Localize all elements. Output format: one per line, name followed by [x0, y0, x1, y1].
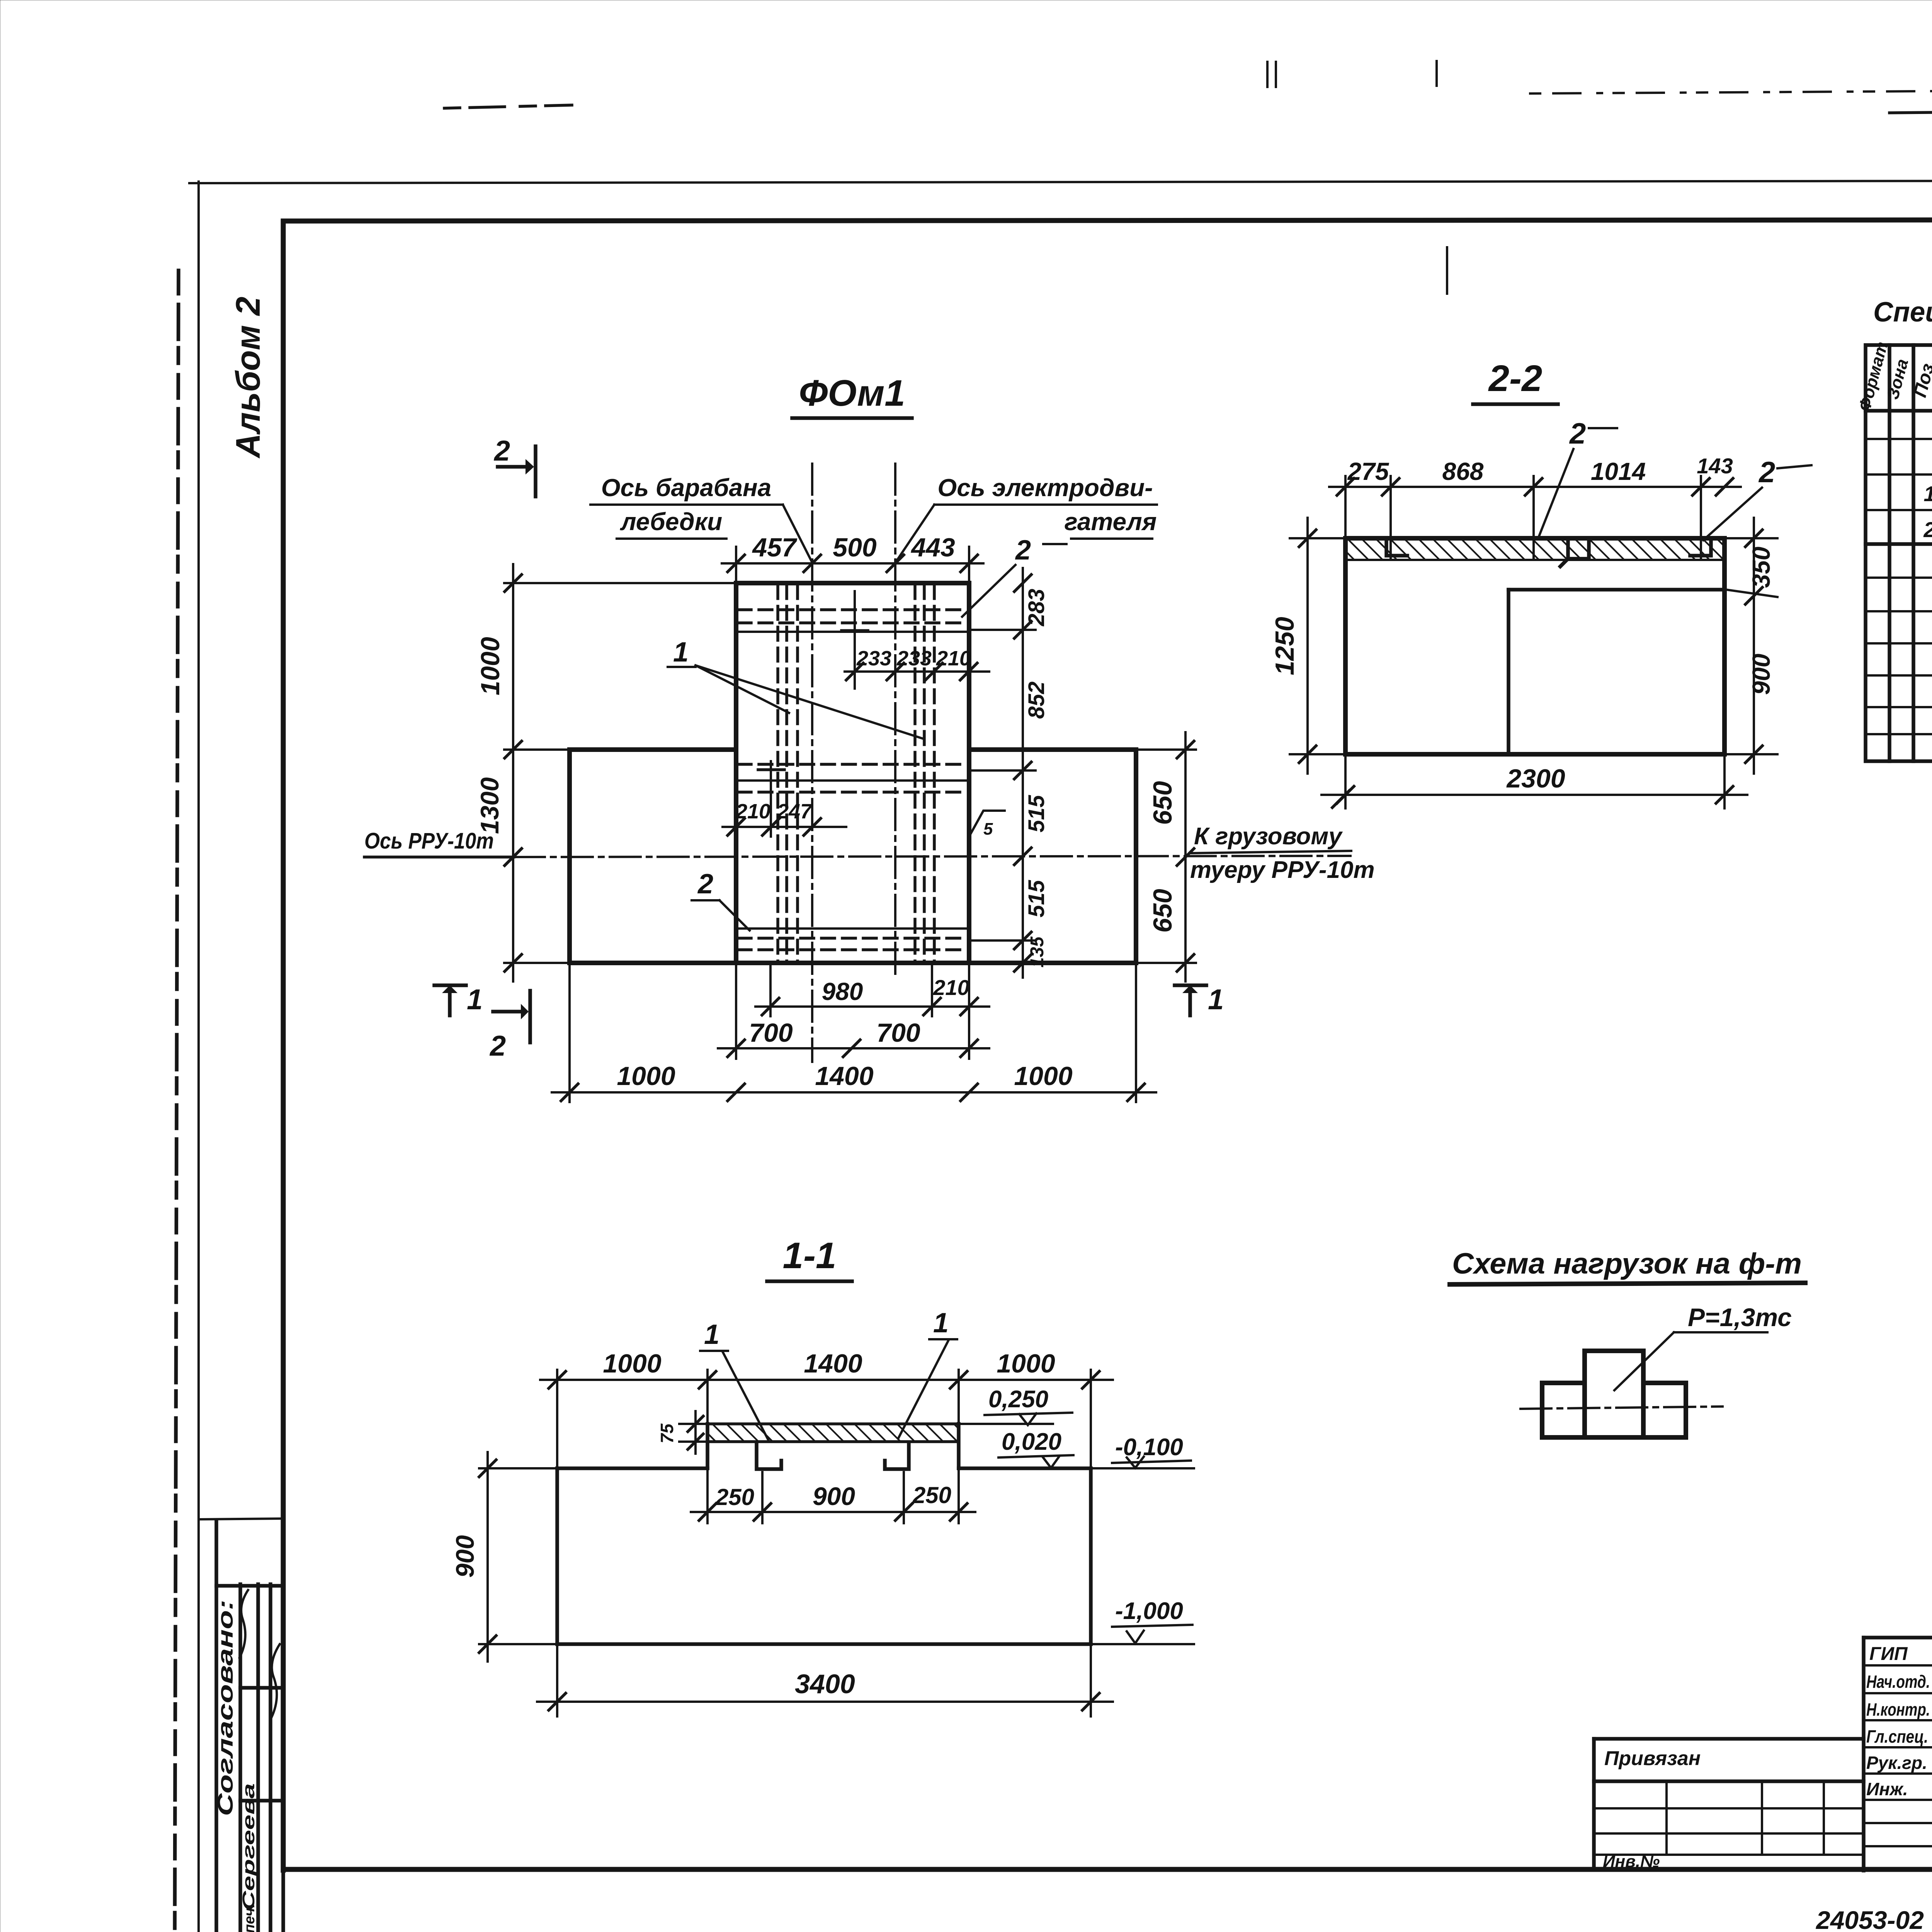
svg-text:Сергеева: Сергеева [239, 1783, 258, 1911]
svg-text:75: 75 [657, 1423, 677, 1444]
leader 1 left channel (1-1) [700, 1319, 768, 1440]
svg-text:500: 500 [833, 533, 877, 562]
load P leader [1614, 1303, 1792, 1390]
leader axis motor label [896, 474, 1157, 561]
dims 350 900 right (2-2) [1726, 518, 1777, 774]
svg-text:1000: 1000 [997, 1349, 1055, 1378]
section mark 2 top [493, 435, 536, 497]
axis motor (dash-dot vertical) [894, 464, 896, 974]
svg-text:650: 650 [1148, 889, 1177, 933]
plan inner solid lines [736, 632, 969, 929]
dim row inner 210 247 [723, 761, 846, 837]
bolt cross top [842, 629, 868, 632]
spec row pos1 [1923, 481, 1932, 507]
svg-text:700: 700 [749, 1018, 793, 1048]
svg-text:1-1: 1-1 [783, 1235, 837, 1276]
outer thin border left [197, 182, 200, 1932]
svg-text:443: 443 [910, 533, 955, 562]
svg-text:1: 1 [704, 1319, 719, 1350]
svg-text:900: 900 [813, 1482, 855, 1510]
svg-text:5: 5 [983, 820, 993, 838]
svg-text:350: 350 [1747, 547, 1775, 588]
svg-text:2: 2 [1569, 417, 1586, 450]
dim row bottom 700 700 [718, 965, 989, 1059]
svg-text:2-2: 2-2 [1488, 358, 1543, 399]
spec header labels [1855, 340, 1932, 413]
pedestal sides (1-1) [707, 1424, 959, 1468]
dim row bottom 1000 1400 1000 [552, 965, 1156, 1102]
embedded angle right (2-2) [1690, 541, 1711, 556]
spec table title [1873, 297, 1932, 328]
svg-text:900: 900 [451, 1535, 479, 1578]
svg-text:Спецификация элементов монолит: Спецификация элементов монолитной констр… [1873, 297, 1932, 328]
svg-text:275: 275 [1347, 457, 1389, 485]
svg-text:1400: 1400 [804, 1349, 862, 1378]
plan right wing outline [969, 750, 1136, 963]
svg-text:гателя: гателя [1065, 508, 1157, 536]
channel pos1 left (1-1) [757, 1443, 781, 1469]
svg-text:210: 210 [933, 975, 969, 1000]
svg-text:1000: 1000 [1014, 1061, 1072, 1091]
leader 2 middle (2-2) [1539, 417, 1617, 537]
level -0,100 (1-1) [1112, 1434, 1191, 1468]
svg-text:0,020: 0,020 [1002, 1429, 1061, 1455]
svg-text:Гл.спец.: Гл.спец. [1866, 1726, 1928, 1747]
svg-text:Ось барабана: Ось барабана [601, 474, 772, 502]
svg-text:1: 1 [467, 983, 483, 1015]
svg-text:1250: 1250 [1270, 617, 1299, 675]
dim row top 457 500 443 [722, 533, 983, 587]
paper edge dashed line left [175, 270, 179, 1932]
soglasovano table bottom-left [199, 1519, 283, 1932]
dim row inner 233 233 210 [845, 591, 989, 689]
svg-text:1400: 1400 [815, 1061, 873, 1091]
dim 3400 (1-1) [537, 1646, 1113, 1716]
main frame (thick) [283, 219, 1932, 1891]
svg-text:233: 233 [856, 647, 891, 670]
dim row 1000 1400 1000 (1-1) [540, 1349, 1113, 1466]
svg-text:250: 250 [715, 1484, 754, 1510]
embedded angle left (2-2) [1386, 541, 1407, 556]
channel pos1 left (dashed) [778, 585, 798, 961]
svg-text:Ось РРУ-10т: Ось РРУ-10т [364, 828, 494, 854]
load scheme axis [1520, 1406, 1723, 1409]
svg-text:247: 247 [777, 800, 813, 823]
leader 2 top right [962, 535, 1066, 617]
dim 900 left (1-1) [451, 1452, 555, 1662]
svg-text:-1,000: -1,000 [1115, 1598, 1183, 1624]
label to cargo tuer [1190, 823, 1375, 883]
svg-text:0,250: 0,250 [988, 1386, 1048, 1413]
svg-text:туеру РРУ-10т: туеру РРУ-10т [1190, 857, 1375, 883]
svg-text:Схема нагрузок на ф-т: Схема нагрузок на ф-т [1452, 1247, 1802, 1280]
section mark 1 left [434, 983, 483, 1015]
section 1-1 title [767, 1235, 852, 1281]
svg-text:Нач.отд.: Нач.отд. [1866, 1672, 1930, 1692]
angle pos2 top (dashed) [738, 610, 968, 623]
svg-text:лебедки: лебедки [620, 508, 722, 536]
svg-text:1300: 1300 [475, 777, 504, 834]
svg-text:2300: 2300 [1506, 764, 1565, 793]
svg-text:К грузовому: К грузовому [1194, 823, 1343, 850]
svg-text:457: 457 [752, 533, 798, 562]
svg-text:515: 515 [1024, 880, 1049, 918]
svg-text:ГИП: ГИП [1869, 1644, 1908, 1664]
leader 1 right channel (1-1) [898, 1308, 957, 1438]
svg-text:250: 250 [912, 1482, 951, 1508]
svg-text:135: 135 [1027, 936, 1048, 968]
level 0,020 (1-1) [998, 1429, 1073, 1468]
svg-text:2: 2 [489, 1030, 506, 1062]
top faint smudges [444, 61, 1932, 294]
axis drum (dash-dot vertical) [811, 464, 813, 1062]
slab with hatch (1-1) [707, 1424, 959, 1442]
svg-text:1: 1 [1208, 983, 1224, 1015]
signature table texts [1866, 1643, 1932, 1799]
svg-text:1000: 1000 [603, 1349, 661, 1378]
svg-text:650: 650 [1148, 781, 1177, 825]
dim col inner right 283 852 515 515 135 [969, 568, 1049, 978]
plan central pedestal outline [736, 583, 969, 963]
weld flag 5 [969, 811, 1005, 838]
dim row bottom 980 210 [755, 965, 989, 1016]
foundation outline (1-1) [557, 1468, 1194, 1644]
svg-text:1000: 1000 [617, 1061, 675, 1091]
svg-text:1: 1 [1923, 481, 1932, 506]
archive number below frame [1815, 1906, 1932, 1932]
svg-text:1: 1 [933, 1308, 949, 1338]
svg-text:283: 283 [1024, 589, 1049, 627]
dim row 250 900 250 (1-1) [691, 1470, 975, 1523]
dim 2300 bottom (2-2) [1321, 756, 1747, 808]
load scheme left block [1542, 1383, 1585, 1437]
dim col outer right 650 650 [1136, 732, 1349, 981]
channel pos1 right (1-1) [885, 1443, 909, 1469]
album label rotated [229, 297, 267, 459]
section 2-2 title [1473, 358, 1558, 404]
plan title FOm1 [792, 372, 912, 418]
svg-text:Формат: Формат [1855, 340, 1892, 413]
plan left wing outline [570, 750, 736, 963]
svg-text:ФОм1: ФОм1 [799, 372, 905, 414]
svg-text:868: 868 [1442, 457, 1484, 485]
svg-text:-0,100: -0,100 [1115, 1434, 1183, 1461]
svg-text:Привязан: Привязан [1604, 1747, 1701, 1770]
svg-text:1: 1 [673, 637, 689, 668]
svg-text:Н.контр.: Н.контр. [1866, 1699, 1930, 1719]
svg-text:210: 210 [735, 800, 770, 823]
section mark 2 bottom [489, 991, 530, 1062]
svg-text:2: 2 [1015, 535, 1031, 566]
svg-text:2: 2 [493, 435, 510, 467]
svg-text:515: 515 [1024, 795, 1049, 833]
leader 2 right (2-2) [1703, 456, 1811, 540]
svg-text:852: 852 [1024, 682, 1049, 719]
svg-text:700: 700 [876, 1018, 920, 1048]
svg-text:1014: 1014 [1591, 457, 1646, 485]
load scheme title [1450, 1247, 1805, 1284]
level -1,000 (1-1) [1112, 1598, 1192, 1643]
svg-text:900: 900 [1747, 654, 1775, 695]
spec table grid [1866, 345, 1932, 761]
section 2-2 body outline [1345, 538, 1725, 754]
svg-text:Инв.№: Инв.№ [1603, 1852, 1660, 1871]
svg-text:233: 233 [896, 647, 932, 670]
svg-text:Согласовано:: Согласовано: [213, 1600, 237, 1816]
svg-text:210: 210 [936, 647, 971, 670]
svg-text:143: 143 [1697, 454, 1733, 478]
angle pos2 bottom (dashed) [738, 938, 968, 950]
leader 1 channels [668, 637, 923, 739]
dim col left 1000 1300 [475, 564, 736, 981]
leader axis drum label [590, 474, 811, 561]
svg-text:Ось электродви-: Ось электродви- [937, 474, 1153, 502]
section mark 1 right [1175, 983, 1224, 1015]
svg-text:2: 2 [1758, 456, 1775, 489]
svg-text:Инж.: Инж. [1866, 1779, 1908, 1799]
svg-text:24053-02: 24053-02 [1815, 1906, 1924, 1932]
load scheme right block [1643, 1383, 1686, 1437]
angle pos2 middle (dashed) [738, 764, 968, 792]
spec row pos2 [1923, 517, 1932, 542]
axis RRU horizontal [364, 828, 1350, 857]
svg-text:Зона: Зона [1883, 357, 1912, 401]
channel pos1 right (dashed) [915, 585, 934, 961]
svg-text:2: 2 [1923, 517, 1932, 542]
svg-text:3400: 3400 [795, 1669, 855, 1699]
svg-text:980: 980 [822, 978, 863, 1005]
dim row 275 868 1014 143 [1329, 454, 1741, 560]
dim 1250 left (2-2) [1270, 518, 1344, 774]
bolt cross middle [758, 768, 784, 771]
level 0,250 (1-1) [959, 1386, 1072, 1425]
outer thin border top [189, 180, 1932, 183]
dim 75 (1-1) [657, 1411, 706, 1454]
svg-text:1000: 1000 [476, 637, 505, 695]
svg-text:Альбом 2: Альбом 2 [229, 297, 267, 459]
embedded channel (2-2) [1560, 540, 1589, 566]
signature table grid [1864, 1638, 1932, 1871]
load scheme pedestal [1585, 1351, 1643, 1437]
svg-text:P=1,3тс: P=1,3тс [1688, 1303, 1792, 1332]
svg-text:Рук.гр.: Рук.гр. [1866, 1753, 1927, 1773]
leader 2 bottom left [692, 869, 750, 930]
privyazan block [1594, 1739, 1864, 1871]
svg-text:2: 2 [697, 869, 713, 900]
